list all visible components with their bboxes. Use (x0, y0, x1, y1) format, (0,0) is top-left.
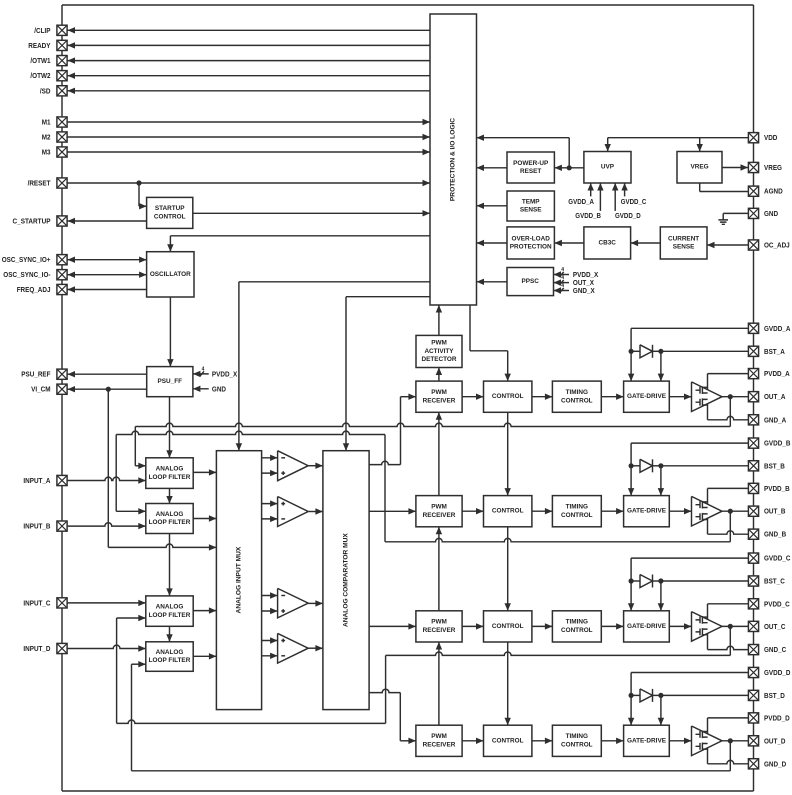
svg-text:CONTROL: CONTROL (561, 742, 593, 749)
svg-text:/CLIP: /CLIP (34, 26, 50, 35)
svg-text:RECEIVER: RECEIVER (423, 512, 456, 519)
svg-text:OVER-LOAD: OVER-LOAD (512, 235, 551, 242)
svg-text:4: 4 (561, 275, 564, 281)
svg-text:INPUT_A: INPUT_A (23, 476, 50, 485)
svg-text:OUT_B: OUT_B (764, 507, 786, 516)
svg-text:GATE-DRIVE: GATE-DRIVE (627, 508, 667, 515)
svg-text:GND_X: GND_X (573, 286, 595, 295)
svg-text:OUT_D: OUT_D (764, 736, 786, 745)
svg-text:BST_C: BST_C (764, 577, 785, 586)
svg-text:LOOP FILTER: LOOP FILTER (149, 474, 191, 481)
svg-text:TIMING: TIMING (566, 619, 588, 626)
svg-text:ANALOG COMPARATOR MUX: ANALOG COMPARATOR MUX (343, 533, 350, 627)
svg-text:READY: READY (28, 41, 50, 50)
svg-text:BST_B: BST_B (764, 461, 785, 470)
svg-text:4: 4 (561, 283, 564, 289)
svg-text:PROTECTION & I/O LOGIC: PROTECTION & I/O LOGIC (450, 118, 457, 201)
svg-text:C_STARTUP: C_STARTUP (13, 217, 51, 226)
svg-text:GVDD_C: GVDD_C (621, 199, 647, 206)
svg-text:VDD: VDD (764, 133, 777, 142)
svg-text:CB3C: CB3C (598, 239, 616, 246)
svg-text:PROTECTION: PROTECTION (510, 244, 552, 251)
svg-text:CONTROL: CONTROL (561, 397, 593, 404)
svg-text:GND_D: GND_D (764, 759, 786, 768)
svg-text:PSU_FF: PSU_FF (158, 378, 183, 385)
svg-text:VREG: VREG (690, 164, 708, 171)
svg-text:/OTW1: /OTW1 (30, 56, 50, 65)
svg-text:GVDD_B: GVDD_B (575, 213, 601, 220)
svg-text:4: 4 (202, 366, 205, 372)
svg-text:PSU_REF: PSU_REF (21, 370, 51, 379)
svg-text:BST_A: BST_A (764, 347, 785, 356)
svg-text:ANALOG: ANALOG (156, 465, 184, 472)
svg-text:GATE-DRIVE: GATE-DRIVE (627, 737, 667, 744)
svg-text:OSCILLATOR: OSCILLATOR (150, 271, 191, 278)
svg-text:VREG: VREG (764, 163, 782, 172)
svg-text:M2: M2 (42, 133, 51, 142)
svg-text:PWM: PWM (431, 340, 447, 347)
svg-text:STARTUP: STARTUP (155, 205, 185, 212)
svg-text:INPUT_C: INPUT_C (23, 598, 50, 607)
svg-text:DETECTOR: DETECTOR (421, 356, 456, 363)
svg-text:LOOP FILTER: LOOP FILTER (149, 657, 191, 664)
svg-text:CONTROL: CONTROL (492, 737, 524, 744)
svg-text:RECEIVER: RECEIVER (423, 397, 456, 404)
svg-text:GND: GND (764, 209, 778, 218)
svg-text:GVDD_C: GVDD_C (764, 554, 790, 563)
svg-text:RECEIVER: RECEIVER (423, 627, 456, 634)
svg-text:LOOP FILTER: LOOP FILTER (149, 519, 191, 526)
svg-text:GVDD_D: GVDD_D (764, 668, 790, 677)
svg-text:/RESET: /RESET (28, 179, 51, 188)
svg-text:ACTIVITY: ACTIVITY (424, 348, 454, 355)
svg-text:OUT_A: OUT_A (764, 392, 786, 401)
svg-text:FREQ_ADJ: FREQ_ADJ (17, 285, 51, 294)
svg-text:CONTROL: CONTROL (561, 512, 593, 519)
svg-text:GATE-DRIVE: GATE-DRIVE (627, 393, 667, 400)
svg-text:OC_ADJ: OC_ADJ (764, 241, 790, 250)
svg-text:BST_D: BST_D (764, 691, 785, 700)
svg-text:GVDD_B: GVDD_B (764, 439, 790, 448)
svg-text:CONTROL: CONTROL (492, 623, 524, 630)
svg-text:INPUT_B: INPUT_B (23, 522, 50, 531)
svg-text:ANALOG INPUT MUX: ANALOG INPUT MUX (236, 546, 243, 613)
svg-text:PPSC: PPSC (521, 278, 539, 285)
svg-text:AGND: AGND (764, 187, 783, 196)
svg-text:/OTW2: /OTW2 (30, 71, 50, 80)
svg-text:ANALOG: ANALOG (156, 511, 184, 518)
svg-text:INPUT_D: INPUT_D (23, 644, 50, 653)
svg-text:OSC_SYNC_IO-: OSC_SYNC_IO- (3, 270, 51, 279)
svg-text:ANALOG: ANALOG (156, 603, 184, 610)
svg-text:GATE-DRIVE: GATE-DRIVE (627, 623, 667, 630)
svg-text:GND_B: GND_B (764, 530, 786, 539)
svg-text:RECEIVER: RECEIVER (423, 742, 456, 749)
svg-text:OUT_C: OUT_C (764, 622, 786, 631)
svg-text:PWM: PWM (431, 733, 447, 740)
svg-text:LOOP FILTER: LOOP FILTER (149, 612, 191, 619)
svg-text:4: 4 (561, 267, 564, 273)
svg-text:CONTROL: CONTROL (561, 627, 593, 634)
svg-text:RESET: RESET (520, 168, 541, 175)
svg-text:ANALOG: ANALOG (156, 649, 184, 656)
svg-text:SENSE: SENSE (520, 207, 542, 214)
svg-text:PVDD_D: PVDD_D (764, 713, 790, 722)
svg-text:PVDD_X: PVDD_X (212, 369, 238, 378)
svg-text:TIMING: TIMING (566, 733, 588, 740)
svg-text:GVDD_A: GVDD_A (568, 199, 594, 206)
svg-text:PVDD_B: PVDD_B (764, 484, 790, 493)
svg-text:CONTROL: CONTROL (492, 393, 524, 400)
svg-text:PVDD_A: PVDD_A (764, 369, 790, 378)
svg-text:/SD: /SD (40, 86, 51, 95)
svg-text:GND_C: GND_C (764, 645, 786, 654)
svg-text:PWM: PWM (431, 504, 447, 511)
svg-text:UVP: UVP (601, 164, 615, 171)
svg-text:CONTROL: CONTROL (154, 214, 186, 221)
svg-text:TIMING: TIMING (566, 389, 588, 396)
svg-text:TIMING: TIMING (566, 504, 588, 511)
svg-text:M3: M3 (42, 148, 51, 157)
svg-text:CURRENT: CURRENT (668, 235, 699, 242)
svg-text:GND: GND (212, 384, 226, 393)
svg-text:M1: M1 (42, 118, 51, 127)
svg-text:PWM: PWM (431, 619, 447, 626)
svg-text:PWM: PWM (431, 389, 447, 396)
svg-text:CONTROL: CONTROL (492, 508, 524, 515)
svg-text:PVDD_C: PVDD_C (764, 599, 790, 608)
svg-text:POWER-UP: POWER-UP (513, 160, 549, 167)
svg-text:VI_CM: VI_CM (31, 385, 50, 394)
svg-text:TEMP: TEMP (522, 198, 540, 205)
svg-text:GND_A: GND_A (764, 415, 786, 424)
svg-text:GVDD_D: GVDD_D (615, 213, 641, 220)
svg-text:GVDD_A: GVDD_A (764, 324, 790, 333)
svg-text:OSC_SYNC_IO+: OSC_SYNC_IO+ (2, 255, 51, 264)
svg-text:SENSE: SENSE (673, 244, 695, 251)
